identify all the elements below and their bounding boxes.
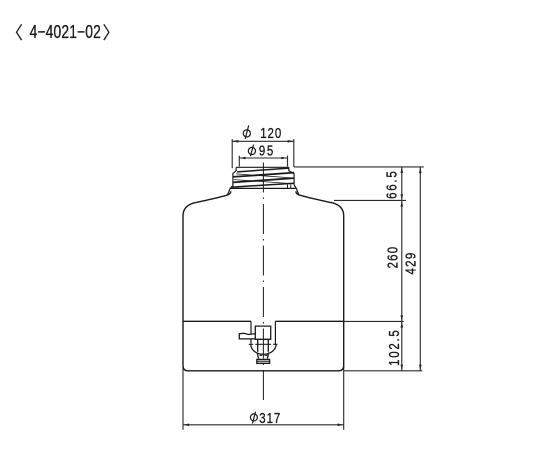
dim phi317 line <box>183 424 344 426</box>
arrow phi317 right <box>338 424 344 427</box>
spigot bowl <box>251 344 276 354</box>
arrow 260 bottom <box>401 315 404 321</box>
centerline vertical <box>262 163 264 401</box>
dim phi120 line <box>232 140 294 142</box>
dim phi317 ext left <box>182 366 184 430</box>
neck rim <box>227 167 299 195</box>
spigot neck <box>258 339 269 352</box>
title bracket left <box>17 24 22 40</box>
dim phi95 line <box>239 157 287 159</box>
ref line bottom <box>344 370 423 372</box>
dim phi120 ext right <box>293 139 295 167</box>
svg-text:260: 260 <box>384 246 401 269</box>
arrowheads <box>183 140 422 426</box>
title text <box>30 22 101 42</box>
dim phi120 ext left <box>231 139 233 168</box>
spigot valve body <box>239 326 276 363</box>
arrow 102.5 top <box>401 321 404 327</box>
svg-text:102.5: 102.5 <box>386 328 403 365</box>
title bracket right <box>104 24 109 40</box>
arrow 260 top <box>401 200 404 206</box>
spigot hidden dashes <box>260 354 268 356</box>
dim text phi317 <box>250 410 281 427</box>
recess wall right <box>274 321 276 344</box>
recess wall left <box>250 321 252 343</box>
arrow 66.5 bottom <box>401 194 404 200</box>
dim phi317 ext right <box>343 366 345 430</box>
svg-text:4−4021−02: 4−4021−02 <box>30 22 101 42</box>
svg-text:429: 429 <box>402 252 419 275</box>
ref line band (260/102.5) <box>344 320 404 322</box>
arrow 429 bottom <box>419 365 422 371</box>
arrow phi120 right <box>288 140 294 143</box>
neck threads <box>231 168 294 188</box>
svg-text:120: 120 <box>260 125 282 142</box>
band line left <box>183 320 251 322</box>
arrow 429 top <box>419 167 422 173</box>
dim text phi120 <box>243 125 282 142</box>
neck flare left <box>227 188 230 195</box>
dim inner vline <box>401 167 403 371</box>
spigot handle <box>239 333 255 339</box>
dim outer vline 429 <box>419 167 421 371</box>
ref line top (429 top) <box>294 166 424 168</box>
arrow phi95 right <box>281 157 287 160</box>
band line right <box>275 320 343 322</box>
svg-text:66.5: 66.5 <box>383 170 400 199</box>
spigot tip flange <box>257 359 270 363</box>
neck flare right <box>296 188 299 195</box>
dim text phi95 <box>248 142 275 159</box>
centerline horizontal (spigot) <box>249 343 278 345</box>
dim phi95 ext left <box>238 156 240 167</box>
arrow 102.5 bottom <box>401 365 404 371</box>
dim phi95 ext right <box>287 156 289 167</box>
arrow phi317 left <box>183 424 189 427</box>
ref line shoulder (66.5/260) <box>334 199 406 201</box>
neck collar <box>230 187 296 189</box>
spigot tip trapezoid <box>257 353 269 359</box>
arrow 66.5 top <box>401 167 404 173</box>
arrow phi120 left <box>232 140 238 143</box>
tank body outline <box>183 191 344 370</box>
svg-text:317: 317 <box>259 410 281 427</box>
svg-text:95: 95 <box>259 142 275 159</box>
arrow phi95 left <box>239 157 245 160</box>
